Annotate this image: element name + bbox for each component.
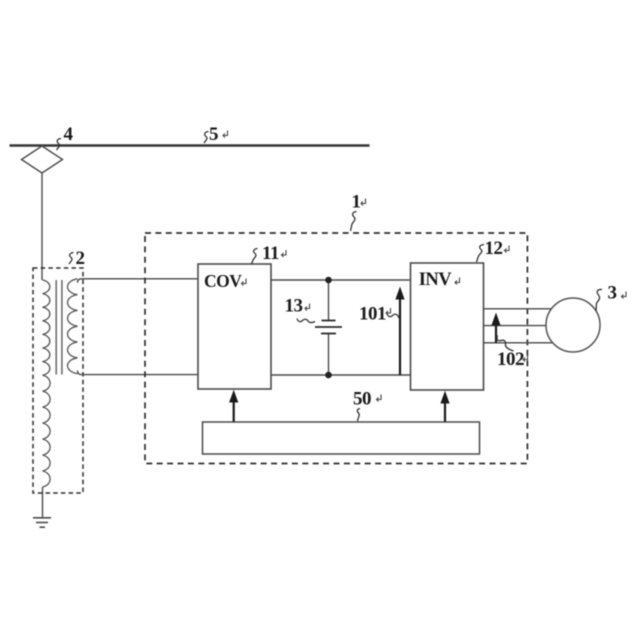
- svg-text:13: 13: [285, 296, 303, 317]
- svg-text:11: 11: [262, 243, 279, 264]
- svg-text:5: 5: [209, 124, 218, 145]
- svg-text:COV: COV: [204, 271, 242, 291]
- svg-text:INV: INV: [419, 270, 453, 290]
- svg-text:3: 3: [608, 283, 617, 304]
- svg-text:2: 2: [76, 248, 85, 269]
- svg-text:50: 50: [353, 389, 371, 410]
- svg-text:12: 12: [485, 238, 503, 259]
- svg-text:102: 102: [497, 349, 524, 370]
- svg-text:4: 4: [64, 124, 74, 145]
- svg-text:101: 101: [359, 304, 386, 325]
- svg-text:1: 1: [352, 192, 361, 213]
